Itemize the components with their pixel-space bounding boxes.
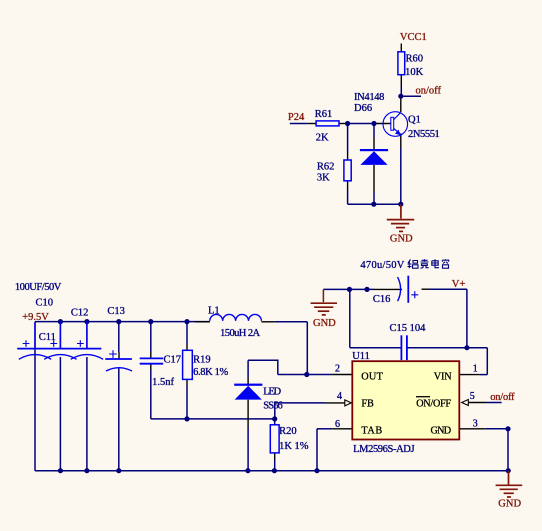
- svg-text:D66: D66: [354, 103, 372, 114]
- svg-text:1K 1%: 1K 1%: [279, 441, 309, 452]
- svg-text:C15 104: C15 104: [390, 323, 427, 334]
- svg-text:3K: 3K: [317, 172, 330, 183]
- svg-text:GND: GND: [431, 425, 452, 436]
- svg-text:ON/OFF: ON/OFF: [416, 399, 451, 410]
- svg-text:P24: P24: [288, 112, 305, 123]
- svg-text:6.8K 1%: 6.8K 1%: [193, 367, 228, 378]
- svg-text:IN4148: IN4148: [354, 92, 384, 103]
- svg-text:Q1: Q1: [408, 115, 421, 126]
- svg-text:1: 1: [473, 364, 478, 375]
- svg-text:on/off: on/off: [490, 392, 515, 403]
- svg-text:R19: R19: [193, 355, 211, 366]
- svg-text:OUT: OUT: [361, 371, 383, 382]
- svg-text:R61: R61: [315, 109, 333, 120]
- svg-text:2N5551: 2N5551: [408, 129, 440, 140]
- svg-text:2K: 2K: [316, 133, 329, 144]
- svg-text:1.5nf: 1.5nf: [152, 377, 174, 388]
- svg-text:4: 4: [337, 391, 342, 402]
- svg-text:5: 5: [470, 391, 475, 402]
- svg-text:470u/50V: 470u/50V: [360, 260, 404, 271]
- svg-text:LM2596S-ADJ: LM2596S-ADJ: [353, 444, 415, 455]
- svg-text:GND: GND: [498, 499, 521, 510]
- svg-text:LED: LED: [263, 387, 281, 398]
- svg-text:3: 3: [473, 418, 478, 429]
- svg-text:R62: R62: [317, 162, 335, 173]
- svg-text:FB: FB: [361, 399, 374, 410]
- svg-text:10K: 10K: [405, 67, 424, 78]
- svg-text:+9.5V: +9.5V: [22, 312, 49, 323]
- svg-text:L1: L1: [208, 305, 220, 316]
- svg-text:R20: R20: [279, 426, 297, 437]
- svg-text:R60: R60: [406, 54, 424, 65]
- svg-text:C16: C16: [373, 294, 391, 305]
- svg-text:SS56: SS56: [263, 401, 283, 412]
- svg-text:on/off: on/off: [416, 86, 442, 97]
- svg-text:TAB: TAB: [361, 425, 382, 436]
- svg-text:150uH 2A: 150uH 2A: [220, 328, 260, 339]
- svg-text:GND: GND: [390, 234, 413, 245]
- svg-text:VCC1: VCC1: [400, 32, 427, 43]
- svg-text:U11: U11: [352, 351, 370, 362]
- svg-text:C17: C17: [164, 355, 182, 366]
- svg-text:6: 6: [335, 419, 340, 430]
- svg-text:C10: C10: [36, 297, 54, 308]
- svg-text:VIN: VIN: [434, 371, 453, 382]
- svg-text:100UF/50V: 100UF/50V: [15, 282, 62, 293]
- svg-text:C12: C12: [71, 308, 89, 319]
- svg-text:GND: GND: [313, 318, 336, 329]
- svg-text:V+: V+: [452, 279, 466, 290]
- svg-text:C13: C13: [107, 306, 125, 317]
- svg-text:2: 2: [335, 364, 340, 375]
- svg-text:C11: C11: [39, 332, 56, 343]
